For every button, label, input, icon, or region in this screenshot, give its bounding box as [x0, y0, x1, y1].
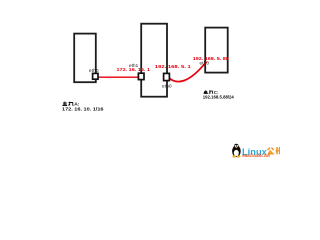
svg-text:192. 168. 5. 88: 192. 168. 5. 88: [193, 56, 230, 61]
host A box: [74, 34, 96, 83]
NIC square A.eth0: [93, 73, 98, 79]
svg-text:eth0: eth0: [162, 83, 172, 88]
社: [276, 147, 280, 154]
机: [69, 102, 74, 106]
svg-text:192.168.5.88/24: 192.168.5.88/24: [203, 95, 235, 100]
svg-text:eth0: eth0: [89, 68, 99, 73]
主: [62, 102, 67, 106]
host C box: [205, 28, 228, 73]
svg-text:172. 16. 16. 1: 172. 16. 16. 1: [117, 67, 151, 72]
host C caption 主机C:: [204, 90, 214, 93]
host A caption 主机A:: [62, 102, 73, 106]
svg-text:172. 16. 10. 1/16: 172. 16. 10. 1/16: [62, 106, 104, 111]
Tux penguin watermark: [232, 144, 241, 158]
NIC square B.eth1: [138, 73, 144, 79]
svg-text:eth0: eth0: [200, 61, 210, 66]
wire B.eth0 - C.eth0: [170, 62, 207, 82]
watermark 公社 (orange): [268, 147, 280, 154]
主: [204, 90, 208, 93]
router B box: [141, 24, 167, 97]
公: [268, 148, 274, 154]
svg-text:192. 168. 5. 1: 192. 168. 5. 1: [155, 64, 192, 69]
NIC square B.eth0: [164, 73, 170, 80]
机: [209, 90, 213, 93]
svg-text:www.Linuxidc.com: www.Linuxidc.com: [242, 153, 270, 158]
wire A.eth0 - B.eth1: [98, 76, 139, 78]
